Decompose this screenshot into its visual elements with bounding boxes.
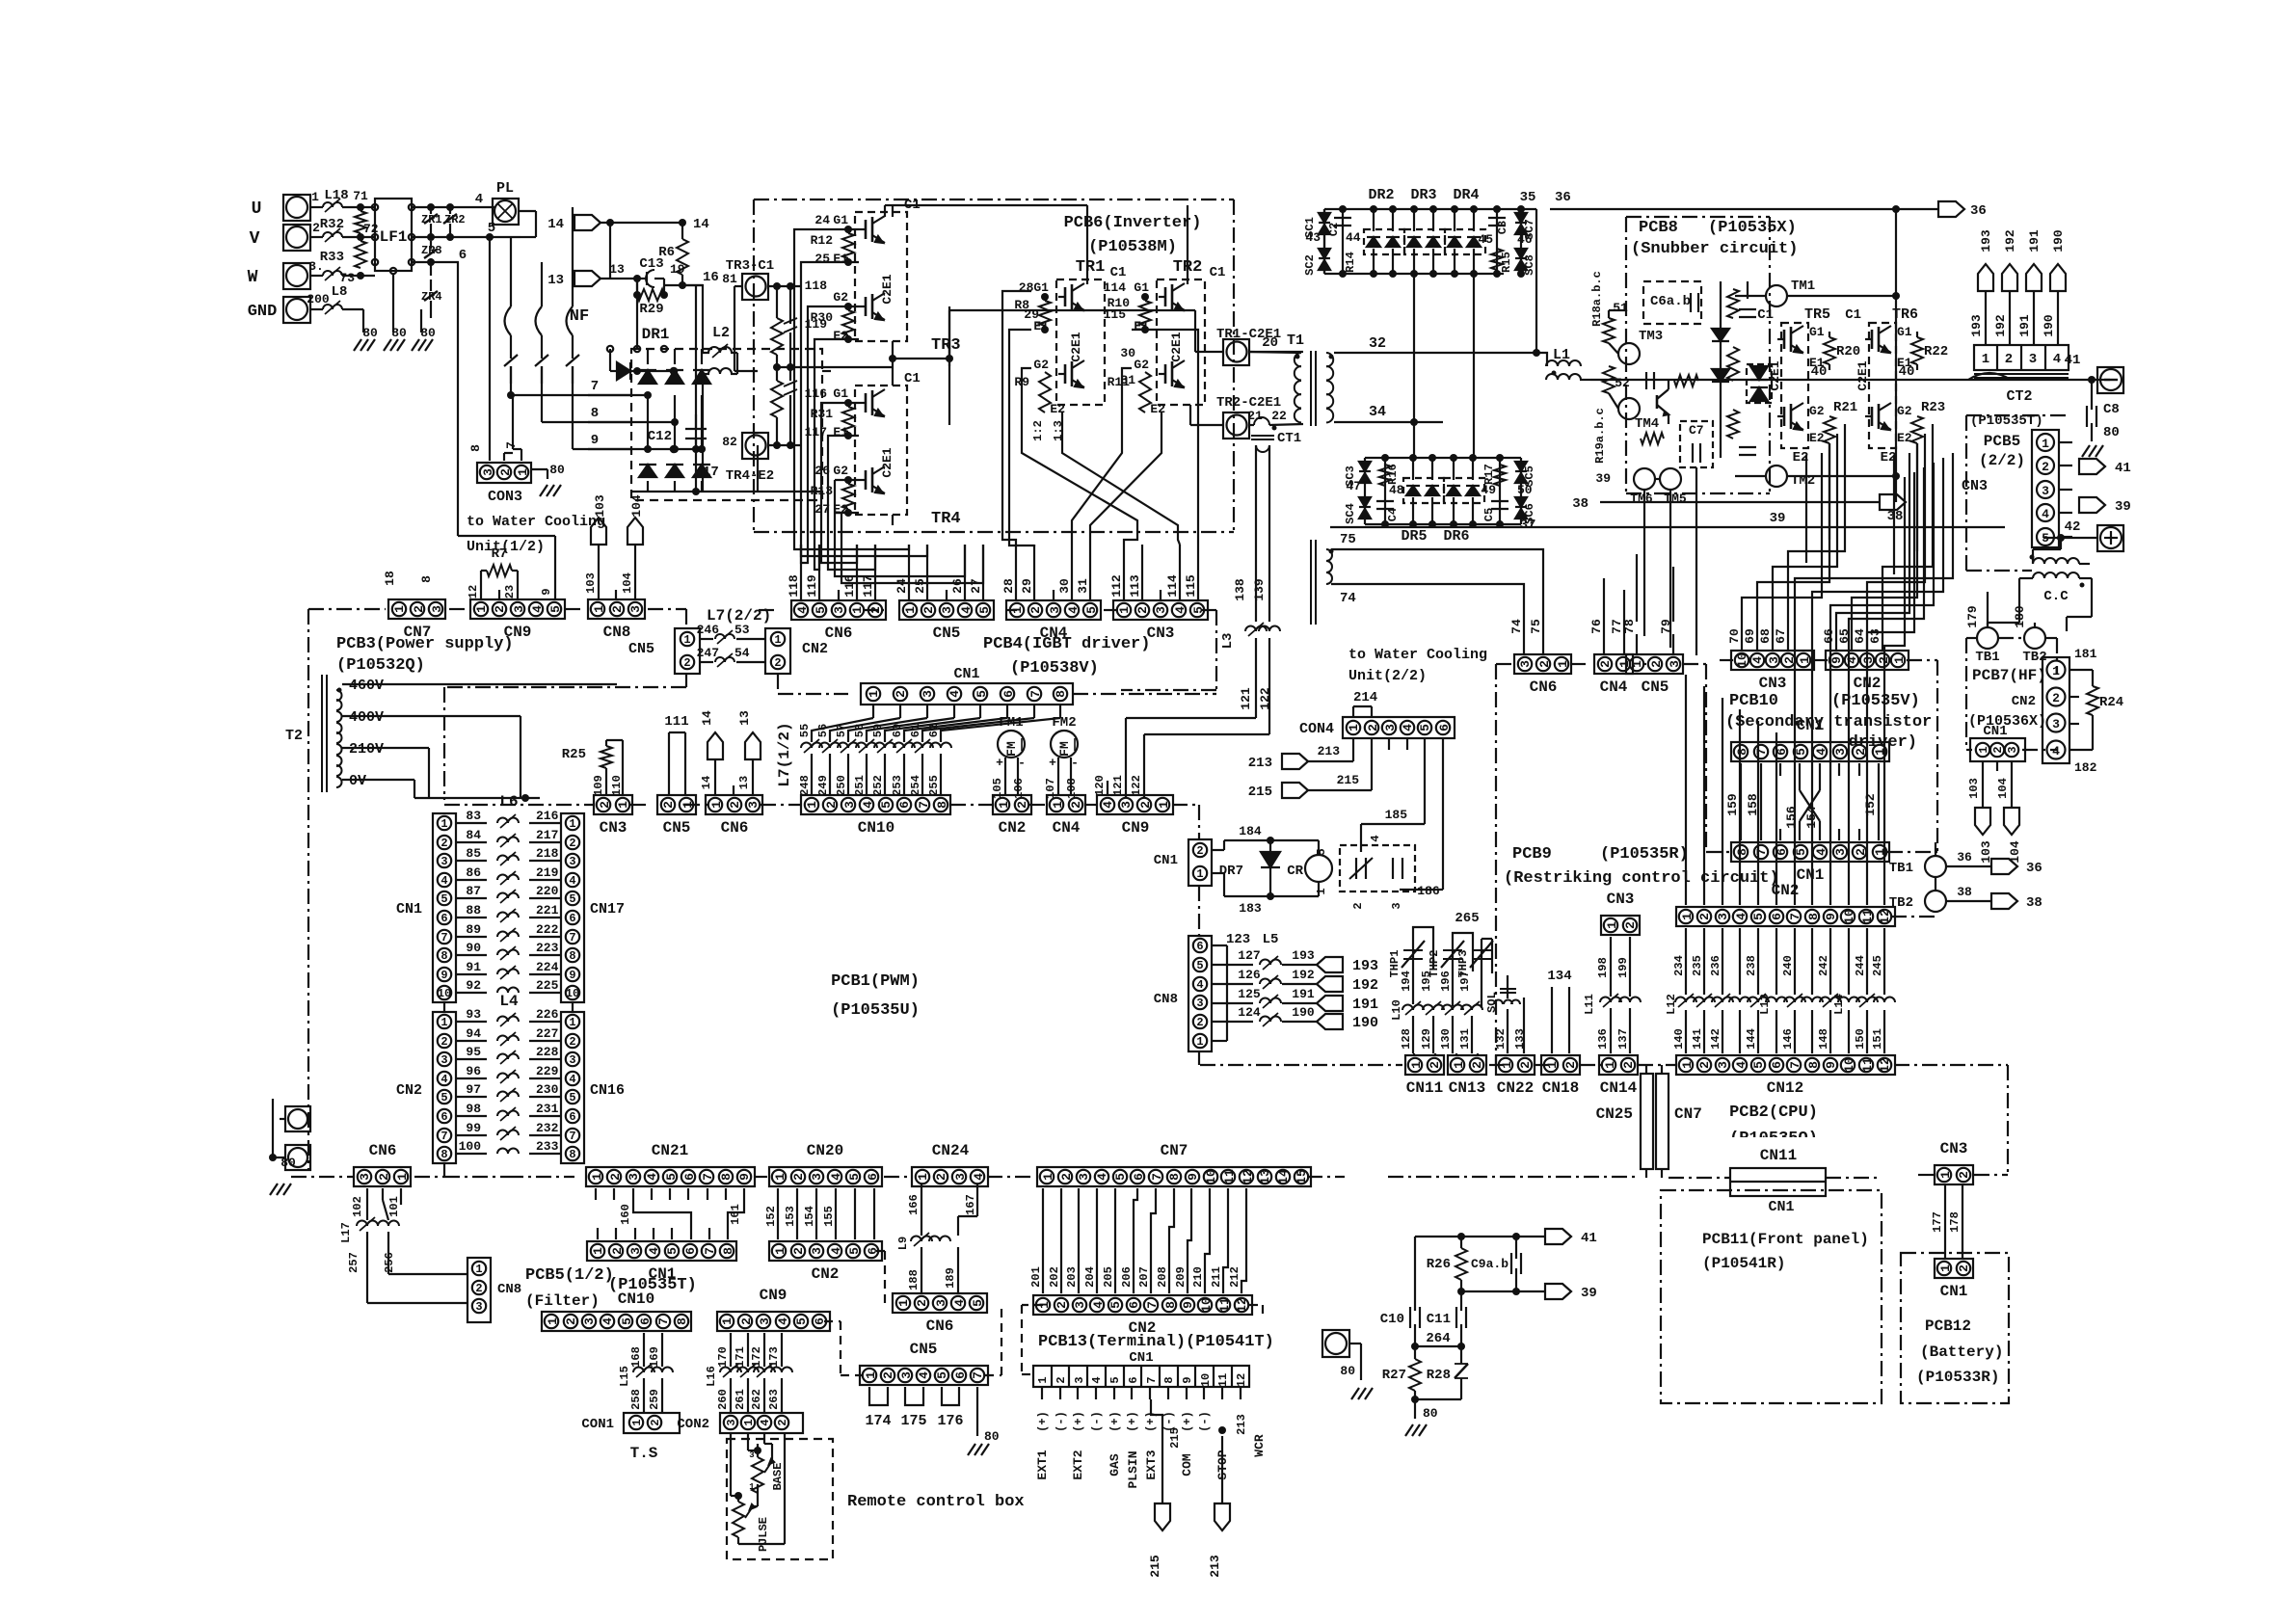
svg-text:104: 104 bbox=[1996, 778, 2010, 799]
PCB11 dashed box bbox=[1661, 1190, 1882, 1403]
svg-text:10: 10 bbox=[1199, 1297, 1214, 1313]
wires 74 75 to T1 bbox=[1369, 549, 1543, 634]
svg-text:5: 5 bbox=[1108, 1376, 1122, 1383]
connector CN6 PCB1 bbox=[706, 795, 762, 837]
svg-text:7: 7 bbox=[441, 931, 447, 945]
svg-text:CN1: CN1 bbox=[1154, 853, 1178, 868]
svg-text:25: 25 bbox=[913, 578, 927, 594]
C2E1 bus wires to terminals bbox=[949, 310, 1223, 425]
svg-text:7: 7 bbox=[1145, 1376, 1159, 1383]
svg-text:99: 99 bbox=[466, 1121, 481, 1135]
svg-text:R22: R22 bbox=[1924, 344, 1948, 359]
svg-text:62: 62 bbox=[927, 724, 941, 737]
connector CN1 2p vertical bbox=[1154, 839, 1212, 886]
PCB10 CN3 pin wires bbox=[1742, 424, 1845, 622]
fan FM1 bbox=[991, 715, 1026, 799]
transformer T1 bbox=[1249, 333, 1334, 426]
ground bbox=[2082, 445, 2103, 457]
svg-text:ZR2: ZR2 bbox=[444, 213, 466, 226]
svg-text:119: 119 bbox=[805, 574, 819, 598]
TB2 terminal lower bbox=[1889, 877, 2042, 912]
svg-text:3: 3 bbox=[1861, 656, 1876, 664]
svg-text:2: 2 bbox=[412, 605, 426, 613]
L7(1/2) coil bank bbox=[776, 722, 793, 786]
svg-text:8: 8 bbox=[1806, 913, 1821, 920]
svg-text:180: 180 bbox=[2013, 605, 2027, 628]
svg-text:1: 1 bbox=[1798, 656, 1812, 664]
varistor R28 bbox=[1427, 1346, 1468, 1399]
svg-text:CN6: CN6 bbox=[721, 819, 749, 837]
svg-text:206: 206 bbox=[1120, 1266, 1134, 1288]
svg-text:84: 84 bbox=[466, 828, 481, 842]
svg-text:CN6: CN6 bbox=[369, 1142, 397, 1159]
svg-text:2: 2 bbox=[493, 605, 507, 613]
svg-text:97: 97 bbox=[466, 1082, 481, 1097]
svg-text:4: 4 bbox=[441, 1073, 447, 1086]
svg-text:4: 4 bbox=[441, 874, 447, 888]
inductor L3 bbox=[1126, 623, 1280, 797]
svg-text:38: 38 bbox=[1957, 885, 1972, 899]
svg-text:31: 31 bbox=[1076, 578, 1090, 594]
svg-text:11: 11 bbox=[1860, 1057, 1875, 1073]
svg-text:5: 5 bbox=[1084, 606, 1099, 614]
svg-text:(+): (+) bbox=[1108, 1411, 1122, 1432]
svg-text:1: 1 bbox=[1630, 660, 1644, 668]
svg-text:59: 59 bbox=[871, 724, 885, 737]
svg-text:2: 2 bbox=[1428, 1061, 1442, 1069]
svg-text:12: 12 bbox=[467, 585, 480, 599]
svg-text:146: 146 bbox=[1781, 1028, 1795, 1050]
svg-text:159: 159 bbox=[1725, 793, 1740, 816]
svg-text:3: 3 bbox=[512, 605, 526, 613]
svg-text:TM1: TM1 bbox=[1791, 279, 1815, 294]
svg-text:28: 28 bbox=[1001, 578, 1016, 594]
svg-text:R32: R32 bbox=[320, 217, 344, 232]
svg-text:+: + bbox=[1049, 756, 1056, 770]
svg-text:FM: FM bbox=[1057, 741, 1072, 757]
svg-text:213: 213 bbox=[1248, 756, 1272, 771]
svg-text:(Filter): (Filter) bbox=[525, 1292, 600, 1310]
CON3 ground bbox=[531, 463, 565, 479]
svg-text:R11: R11 bbox=[1108, 375, 1131, 389]
svg-text:1: 1 bbox=[916, 1173, 930, 1181]
svg-text:CN3: CN3 bbox=[1607, 891, 1635, 908]
svg-text:2: 2 bbox=[915, 1299, 929, 1307]
svg-text:2: 2 bbox=[564, 1317, 578, 1325]
svg-text:51: 51 bbox=[1613, 301, 1628, 315]
svg-text:1: 1 bbox=[1041, 1173, 1055, 1181]
resistor R27 bbox=[1382, 1346, 1421, 1399]
resistor R22 bbox=[1911, 332, 1948, 370]
svg-text:CN14: CN14 bbox=[1600, 1079, 1638, 1097]
svg-text:190: 190 bbox=[1292, 1005, 1315, 1020]
svg-text:42: 42 bbox=[2065, 519, 2081, 535]
svg-text:39: 39 bbox=[1595, 471, 1611, 486]
svg-text:2: 2 bbox=[1957, 1264, 1971, 1272]
terminal TR3-C1 bbox=[722, 258, 774, 300]
svg-text:210V: 210V bbox=[349, 741, 384, 758]
svg-text:7: 7 bbox=[1754, 748, 1769, 756]
svg-text:CN18: CN18 bbox=[1542, 1079, 1579, 1097]
svg-text:2: 2 bbox=[1854, 848, 1868, 856]
svg-text:CN3: CN3 bbox=[1147, 625, 1175, 642]
svg-text:131: 131 bbox=[1458, 1028, 1472, 1050]
svg-text:80: 80 bbox=[362, 326, 378, 340]
svg-text:129: 129 bbox=[1420, 1028, 1433, 1050]
connector CN13 PCB9 bbox=[1448, 1055, 1486, 1097]
svg-text:8: 8 bbox=[591, 406, 599, 421]
capacitor C8 bbox=[2087, 380, 2120, 441]
connector CN10 filter bbox=[542, 1312, 691, 1331]
connector CN5 sec bbox=[1626, 654, 1683, 696]
resistor R23 bbox=[1911, 400, 1945, 443]
remote pot BASE bbox=[748, 1433, 785, 1493]
connector CN6 5p L9 bbox=[0, 0, 1, 1]
connector CN1 PCB7 bbox=[1970, 724, 2025, 761]
SC1 SC2 C2 R14 left leg bbox=[1303, 205, 1361, 278]
PCB7 dashed box bbox=[1966, 638, 2057, 750]
diode DR7 bbox=[1212, 824, 1282, 916]
connector CN2 PCB1 fm bbox=[993, 795, 1031, 837]
wires DR1 to TR3/TR4 terminals bbox=[758, 371, 831, 492]
svg-text:2: 2 bbox=[1351, 902, 1365, 909]
svg-text:2: 2 bbox=[1621, 1061, 1636, 1069]
SOL coil bbox=[1485, 975, 1527, 1053]
resistor R12 bbox=[811, 226, 859, 266]
svg-text:112: 112 bbox=[1109, 574, 1124, 598]
svg-text:5: 5 bbox=[879, 801, 894, 809]
svg-text:213: 213 bbox=[1318, 744, 1341, 758]
connector CN16 8p column bbox=[561, 1002, 625, 1163]
arrow 215 to CON4 bbox=[1248, 738, 1372, 800]
connector CN4 sec bbox=[1594, 654, 1633, 696]
svg-text:8: 8 bbox=[569, 949, 575, 963]
svg-text:121: 121 bbox=[1239, 687, 1253, 710]
svg-text:1: 1 bbox=[867, 690, 881, 698]
svg-text:1: 1 bbox=[1036, 1376, 1050, 1383]
svg-text:1: 1 bbox=[773, 1247, 788, 1255]
svg-text:G2: G2 bbox=[1897, 404, 1912, 418]
svg-text:1: 1 bbox=[864, 1371, 878, 1379]
wire 119 path bbox=[814, 339, 835, 570]
svg-text:9: 9 bbox=[1181, 1376, 1194, 1383]
svg-text:67: 67 bbox=[1774, 628, 1788, 644]
svg-text:NF: NF bbox=[570, 307, 589, 326]
connector CON2 bbox=[677, 1413, 803, 1433]
svg-text:6: 6 bbox=[866, 1173, 880, 1181]
svg-text:233: 233 bbox=[536, 1139, 559, 1154]
svg-text:R7: R7 bbox=[492, 546, 508, 562]
svg-text:148: 148 bbox=[1817, 1028, 1830, 1050]
connector CN14 bbox=[1599, 1055, 1638, 1097]
svg-text:4: 4 bbox=[1734, 913, 1749, 920]
wires CN2 to CN12 with coils bbox=[1665, 928, 1895, 1053]
svg-text:PCB1(PWM): PCB1(PWM) bbox=[831, 972, 920, 991]
CN7-CN2 step wires bbox=[1029, 1188, 1246, 1293]
svg-text:173: 173 bbox=[767, 1346, 781, 1368]
svg-text:12: 12 bbox=[1235, 1373, 1248, 1387]
svg-text:(+): (+) bbox=[1126, 1411, 1139, 1432]
svg-text:1: 1 bbox=[1315, 888, 1328, 894]
svg-text:C2E1: C2E1 bbox=[1169, 332, 1184, 361]
connector CN9 bbox=[470, 599, 565, 641]
svg-text:1: 1 bbox=[903, 606, 918, 614]
svg-text:231: 231 bbox=[536, 1102, 559, 1116]
svg-text:151: 151 bbox=[1871, 1028, 1884, 1050]
svg-text:2: 2 bbox=[1470, 1061, 1484, 1069]
svg-text:3: 3 bbox=[1077, 1173, 1091, 1181]
svg-text:193: 193 bbox=[1292, 948, 1315, 963]
svg-text:(P10538V): (P10538V) bbox=[1010, 659, 1099, 678]
svg-text:22: 22 bbox=[1271, 409, 1287, 423]
ground bbox=[968, 1444, 989, 1455]
svg-text:215: 215 bbox=[1248, 785, 1272, 800]
transistor TR6 bbox=[1845, 306, 1918, 466]
38 terminal arrow bbox=[1880, 494, 1906, 524]
resistor R11 bbox=[1108, 372, 1151, 412]
svg-text:4: 4 bbox=[2052, 744, 2060, 758]
svg-text:195: 195 bbox=[1420, 971, 1433, 992]
wires 185 186 from CON4 bbox=[1361, 738, 1443, 890]
svg-text:1: 1 bbox=[896, 1299, 911, 1307]
svg-text:7: 7 bbox=[1788, 1061, 1802, 1069]
svg-text:G1: G1 bbox=[833, 386, 848, 401]
svg-text:1: 1 bbox=[1603, 1061, 1617, 1069]
svg-text:8: 8 bbox=[1806, 1061, 1821, 1069]
svg-text:150: 150 bbox=[1854, 1028, 1867, 1050]
svg-text:2: 2 bbox=[661, 801, 676, 809]
connector CN1 10p column bbox=[396, 813, 456, 1002]
PCB6 internal bus wires bbox=[893, 205, 1188, 284]
svg-text:140: 140 bbox=[1672, 1028, 1686, 1050]
svg-text:261: 261 bbox=[734, 1389, 747, 1410]
connector CN5 PCB4 bbox=[899, 600, 994, 642]
svg-text:5: 5 bbox=[794, 1317, 809, 1325]
svg-text:209: 209 bbox=[1174, 1266, 1188, 1288]
svg-text:4: 4 bbox=[861, 801, 875, 809]
svg-text:TB2: TB2 bbox=[1889, 895, 1913, 911]
svg-text:191: 191 bbox=[2027, 229, 2042, 253]
connector CN5 PCB1 bbox=[657, 795, 696, 837]
svg-text:2: 2 bbox=[1135, 606, 1150, 614]
svg-text:251: 251 bbox=[853, 775, 867, 796]
text PCB3(Power supply) bbox=[336, 635, 514, 675]
svg-text:86: 86 bbox=[466, 865, 481, 880]
svg-text:41: 41 bbox=[2115, 461, 2131, 476]
svg-text:115: 115 bbox=[1184, 574, 1198, 598]
svg-text:DR1: DR1 bbox=[642, 326, 670, 343]
svg-text:215: 215 bbox=[1148, 1555, 1162, 1578]
svg-text:3: 3 bbox=[582, 1317, 597, 1325]
svg-text:4: 4 bbox=[530, 605, 545, 613]
svg-text:2: 2 bbox=[921, 606, 936, 614]
ground bbox=[1351, 1388, 1373, 1399]
svg-text:104: 104 bbox=[621, 572, 634, 594]
connector CN4 PCB4 bbox=[1006, 600, 1101, 642]
connector CN1 PCB12 bbox=[1935, 1259, 1973, 1300]
svg-text:G1: G1 bbox=[1134, 280, 1149, 295]
svg-text:3: 3 bbox=[842, 801, 857, 809]
svg-text:1: 1 bbox=[590, 1173, 604, 1181]
connector CN12 PCB2 bbox=[1676, 1055, 1895, 1097]
svg-text:C2E1: C2E1 bbox=[1855, 360, 1870, 390]
svg-text:9: 9 bbox=[540, 588, 553, 595]
svg-text:121: 121 bbox=[1111, 775, 1125, 796]
svg-text:4: 4 bbox=[972, 1173, 986, 1181]
ground bbox=[270, 1184, 291, 1195]
svg-text:227: 227 bbox=[536, 1026, 558, 1041]
connector CN2 PCB7 bbox=[2042, 647, 2097, 775]
L15 coils bbox=[618, 1333, 673, 1413]
svg-text:1: 1 bbox=[569, 1016, 575, 1029]
DR1 diodes upper bbox=[639, 349, 710, 453]
svg-text:G2: G2 bbox=[1134, 358, 1149, 372]
PCB9 dashed border bbox=[1496, 664, 1706, 1065]
svg-text:(P10535V): (P10535V) bbox=[1831, 692, 1920, 710]
svg-text:3: 3 bbox=[569, 1053, 575, 1067]
svg-text:76: 76 bbox=[1589, 619, 1604, 634]
svg-text:6: 6 bbox=[569, 912, 575, 925]
svg-text:C2: C2 bbox=[1327, 223, 1341, 236]
R26 C9a.b snubber net bbox=[1415, 1229, 1597, 1291]
svg-text:9: 9 bbox=[1824, 913, 1838, 920]
svg-text:1: 1 bbox=[1051, 801, 1065, 809]
svg-text:7: 7 bbox=[591, 379, 599, 394]
input terminal W bbox=[248, 259, 324, 289]
svg-text:122: 122 bbox=[1258, 687, 1272, 710]
resistor R10 bbox=[1108, 293, 1151, 333]
R18a.b.c / 51 / 52 / R19a.b.c bbox=[1590, 271, 1630, 486]
connector CN21 bbox=[586, 1142, 755, 1186]
CN25 CN7 vertical connectors bbox=[1596, 1065, 1702, 1178]
svg-text:3: 3 bbox=[940, 606, 954, 614]
svg-text:2: 2 bbox=[1537, 660, 1552, 668]
svg-text:89: 89 bbox=[466, 922, 481, 937]
PCB13 dashed border bbox=[1249, 1305, 1263, 1315]
svg-text:8: 8 bbox=[441, 1148, 447, 1161]
resistor R9 bbox=[1014, 372, 1051, 412]
svg-text:1: 1 bbox=[630, 1419, 644, 1425]
svg-text:2: 2 bbox=[1598, 660, 1613, 668]
svg-text:192: 192 bbox=[1292, 968, 1315, 982]
svg-text:5: 5 bbox=[847, 1173, 862, 1181]
svg-text:216: 216 bbox=[536, 809, 559, 823]
svg-text:265: 265 bbox=[1455, 911, 1479, 926]
svg-text:4: 4 bbox=[795, 606, 810, 614]
step wires TR5 to PCB10 CN3 bbox=[0, 0, 1, 1]
svg-text:13: 13 bbox=[1258, 1169, 1272, 1184]
svg-text:1: 1 bbox=[720, 1317, 734, 1325]
svg-text:222: 222 bbox=[536, 922, 559, 937]
svg-text:CN5: CN5 bbox=[628, 641, 654, 657]
T1 secondary taps 32/34 bbox=[1334, 335, 1536, 422]
nested gate wires left of TR3 bbox=[0, 0, 1, 1]
svg-text:(P10541R): (P10541R) bbox=[1702, 1255, 1785, 1272]
svg-text:1: 1 bbox=[441, 1016, 447, 1029]
connector CN22 bbox=[1496, 1055, 1535, 1097]
svg-text:460V: 460V bbox=[349, 678, 384, 694]
PCB8 dashed box bbox=[1626, 217, 1770, 493]
svg-text:28G1: 28G1 bbox=[1019, 280, 1049, 295]
svg-text:70: 70 bbox=[1727, 628, 1742, 644]
svg-text:L17: L17 bbox=[339, 1222, 353, 1243]
svg-text:27: 27 bbox=[969, 578, 983, 594]
svg-text:138: 138 bbox=[1233, 578, 1247, 601]
svg-text:37: 37 bbox=[1520, 518, 1536, 533]
svg-text:CN5: CN5 bbox=[910, 1341, 938, 1358]
svg-text:3: 3 bbox=[725, 1419, 738, 1425]
svg-text:CN4: CN4 bbox=[1053, 819, 1081, 837]
connector CN17 10p column bbox=[561, 813, 625, 1002]
svg-text:8: 8 bbox=[721, 1247, 735, 1255]
svg-text:250: 250 bbox=[835, 775, 848, 796]
svg-text:2: 2 bbox=[610, 1247, 625, 1255]
ground bbox=[354, 339, 375, 351]
svg-text:14: 14 bbox=[700, 710, 714, 726]
svg-text:5: 5 bbox=[814, 606, 828, 614]
svg-text:215: 215 bbox=[1337, 773, 1360, 787]
svg-text:7: 7 bbox=[569, 931, 575, 945]
svg-text:93: 93 bbox=[466, 1007, 481, 1022]
varistor ZR1 bbox=[421, 207, 442, 237]
row connectors below T1 lower secondary bbox=[0, 0, 1, 1]
svg-text:-: - bbox=[1071, 756, 1079, 770]
svg-text:202: 202 bbox=[1048, 1266, 1061, 1288]
snubber R/ZR pairs at PCB6 input bbox=[771, 286, 893, 445]
capacitor C12 bbox=[648, 414, 719, 495]
connector CN24 bbox=[912, 1142, 988, 1186]
svg-text:5: 5 bbox=[1751, 913, 1766, 920]
varistor ZR4 bbox=[421, 279, 442, 318]
svg-text:SC2: SC2 bbox=[1303, 254, 1317, 276]
svg-text:1: 1 bbox=[546, 1317, 560, 1325]
PCB12 dashed box bbox=[1901, 1253, 2009, 1403]
connector CN2 row2 bbox=[769, 1241, 882, 1283]
svg-text:1: 1 bbox=[805, 801, 819, 809]
connector CN1 PCB10 lower bbox=[1731, 842, 1889, 884]
svg-text:242: 242 bbox=[1817, 955, 1830, 976]
svg-text:TM4: TM4 bbox=[1635, 416, 1659, 432]
svg-text:4: 4 bbox=[569, 874, 575, 888]
svg-text:232: 232 bbox=[536, 1121, 559, 1135]
svg-text:160: 160 bbox=[619, 1204, 632, 1225]
svg-text:10: 10 bbox=[1204, 1169, 1218, 1184]
svg-text:5: 5 bbox=[847, 1247, 862, 1255]
svg-text:2: 2 bbox=[1059, 1173, 1074, 1181]
rectifier block DR5/DR6 bbox=[1365, 454, 1521, 545]
svg-text:230: 230 bbox=[536, 1082, 559, 1097]
verticals from TR5/TR6 resistors down bbox=[1806, 443, 1917, 574]
svg-text:R28: R28 bbox=[1427, 1368, 1451, 1383]
PCB2 bottom dashed border bbox=[1307, 1175, 2008, 1178]
svg-text:E2: E2 bbox=[1897, 431, 1912, 445]
svg-text:3: 3 bbox=[441, 855, 447, 868]
svg-text:L14: L14 bbox=[1832, 994, 1846, 1015]
svg-text:R12: R12 bbox=[811, 233, 834, 248]
svg-text:TM3: TM3 bbox=[1639, 329, 1663, 344]
svg-text:2: 2 bbox=[868, 606, 883, 614]
svg-text:192: 192 bbox=[1352, 977, 1378, 994]
svg-text:81: 81 bbox=[722, 272, 737, 286]
svg-text:CN8: CN8 bbox=[497, 1282, 521, 1297]
svg-text:4: 4 bbox=[1814, 748, 1829, 756]
svg-text:L10: L10 bbox=[1390, 999, 1403, 1021]
svg-text:36: 36 bbox=[1957, 850, 1972, 865]
svg-text:19: 19 bbox=[670, 262, 685, 277]
svg-text:190: 190 bbox=[1352, 1015, 1378, 1031]
svg-text:49: 49 bbox=[1481, 483, 1496, 497]
svg-text:238: 238 bbox=[1745, 955, 1758, 976]
